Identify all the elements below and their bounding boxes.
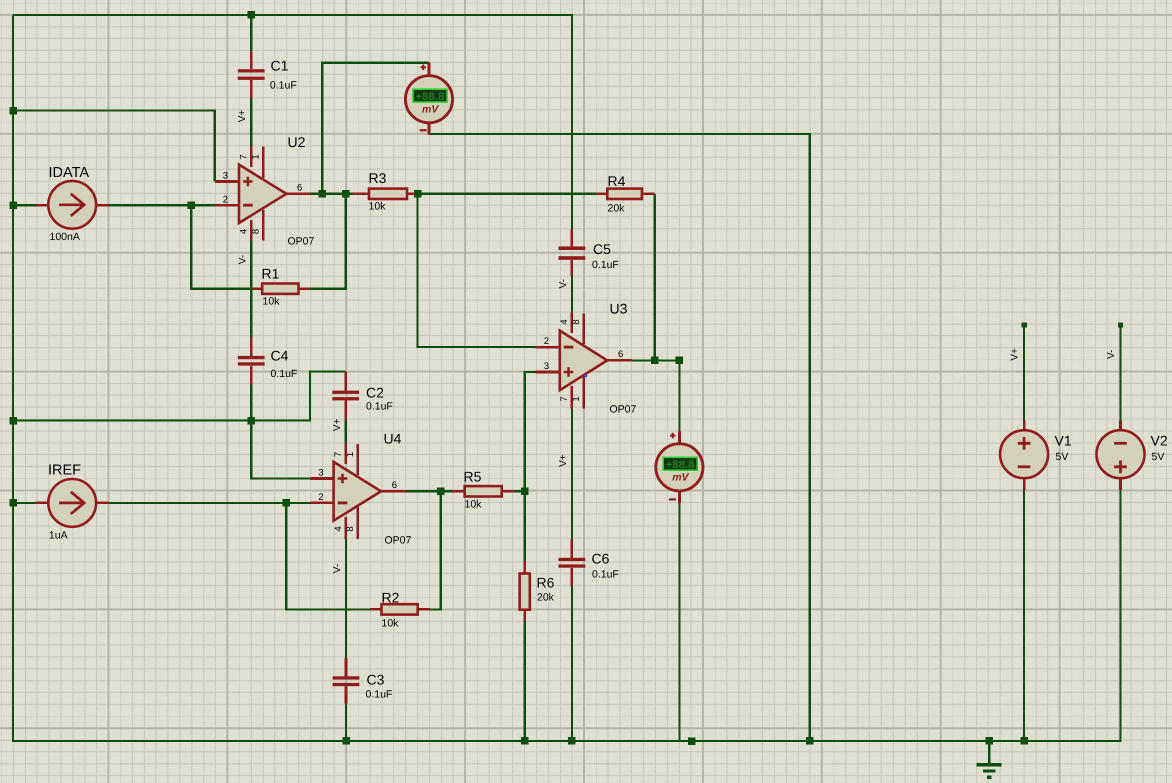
- wire V2 bottom riser: [1119, 490, 1121, 742]
- wire top rail from left rail to C5 column: [13, 15, 572, 229]
- wire R5 right to R6 column: [515, 490, 525, 492]
- wire U3 output lead to node: [632, 359, 656, 361]
- capacitor C3: [333, 658, 393, 704]
- wire U3 pin3 loop to R5/R6 column: [525, 372, 536, 561]
- svg-text:U4: U4: [384, 431, 402, 447]
- node ground rail V1: [1020, 737, 1028, 745]
- svg-text:10k: 10k: [382, 618, 400, 630]
- wire U4 output to R5: [406, 490, 452, 492]
- ground: [977, 741, 1002, 777]
- voltmeter M1: [405, 63, 452, 135]
- svg-text:+88.8: +88.8: [416, 91, 445, 103]
- svg-text:2: 2: [544, 336, 549, 347]
- svg-text:0.1uF: 0.1uF: [366, 689, 393, 701]
- resistor R6 (vertical): [520, 561, 555, 621]
- svg-text:3: 3: [318, 468, 323, 479]
- svg-text:100nA: 100nA: [50, 231, 80, 243]
- node left rail IREF: [9, 499, 17, 507]
- wire U4 pin2 node down to R2 row: [286, 503, 370, 610]
- svg-text:R1: R1: [262, 266, 280, 282]
- svg-text:4: 4: [239, 229, 250, 234]
- wire R4 right down to U3 output node: [654, 194, 656, 361]
- svg-text:C6: C6: [592, 551, 610, 567]
- svg-text:C3: C3: [367, 672, 385, 688]
- wire left rail: [12, 15, 14, 741]
- node ground rail ground pin: [986, 737, 994, 745]
- node IREF/U4 pin2 branch: [283, 499, 291, 507]
- svg-text:10k: 10k: [465, 499, 483, 511]
- current source IDATA: [36, 165, 109, 243]
- wire V1 bottom riser: [1023, 490, 1025, 741]
- svg-text:6: 6: [297, 183, 302, 194]
- svg-text:20k: 20k: [608, 203, 626, 215]
- svg-text:V1: V1: [1055, 433, 1072, 449]
- node ground rail wire-end: [688, 738, 696, 746]
- node left rail y=420: [9, 417, 17, 425]
- wire node row y=420 from left rail stepping up to C2: [13, 372, 346, 421]
- svg-text:R2: R2: [382, 590, 400, 606]
- capacitor C5: [559, 229, 619, 276]
- node V1 terminal square: [1021, 322, 1026, 327]
- resistor R5: [452, 469, 515, 511]
- svg-text:OP07: OP07: [288, 236, 315, 248]
- resistor R3: [353, 170, 415, 213]
- svg-text:IDATA: IDATA: [49, 165, 90, 181]
- svg-text:5V: 5V: [1152, 451, 1165, 463]
- pin1 marker: [584, 374, 587, 377]
- wire U2 pin4 to C4 top: [250, 240, 252, 337]
- svg-text:7: 7: [559, 396, 570, 401]
- resistor R4: [596, 173, 655, 215]
- svg-text:U2: U2: [288, 134, 306, 150]
- svg-text:1uA: 1uA: [49, 530, 68, 542]
- svg-text:V-: V-: [238, 255, 249, 264]
- node V2 terminal square: [1118, 322, 1123, 327]
- wire IREF left: [13, 502, 36, 504]
- svg-text:6: 6: [392, 480, 397, 491]
- capacitor C4: [238, 337, 298, 385]
- wire V1 top stub: [1023, 325, 1025, 421]
- node U2 output / meter branch: [319, 190, 327, 198]
- wire C1 bottom to U2 pin7: [250, 98, 252, 146]
- node U3 output / meter M2: [676, 357, 684, 365]
- wire left rail to IDATA: [13, 204, 36, 206]
- svg-text:0.1uF: 0.1uF: [592, 569, 619, 581]
- svg-text:1: 1: [251, 154, 262, 159]
- resistor R2: [370, 590, 430, 630]
- voltmeter M2: [656, 432, 703, 503]
- svg-text:U3: U3: [610, 301, 628, 317]
- node R3 right: [414, 190, 422, 198]
- op-amp U2: [215, 134, 315, 248]
- wire C1/V+ column above C1: [250, 15, 252, 51]
- wire R3 node down to U3 pin2: [418, 194, 536, 347]
- svg-text:0.1uF: 0.1uF: [592, 259, 619, 271]
- svg-text:3: 3: [544, 361, 549, 372]
- wire R1 right to R3 node column: [310, 194, 346, 289]
- node IDATA/R1 branch: [188, 202, 196, 210]
- node U4 output: [437, 488, 445, 496]
- svg-text:V-: V-: [1106, 350, 1117, 359]
- svg-text:V-: V-: [332, 564, 343, 573]
- svg-text:10k: 10k: [263, 296, 281, 308]
- wire C4 bottom to node row: [250, 384, 252, 420]
- node R3 left: [342, 190, 350, 198]
- wire R2 right up to U4 output node: [430, 491, 441, 609]
- svg-text:8: 8: [345, 526, 356, 531]
- node ground rail C6: [568, 737, 576, 745]
- svg-text:3: 3: [223, 171, 228, 182]
- wire C6 bottom to ground rail: [571, 586, 573, 741]
- node R5 right / U3 pin3: [521, 488, 529, 496]
- svg-text:1: 1: [345, 452, 356, 457]
- node left rail IDATA: [9, 202, 17, 210]
- node ground rail C3: [342, 737, 350, 745]
- svg-text:V+: V+: [558, 454, 569, 467]
- wire voltmeter M2 minus to ground rail: [678, 503, 680, 741]
- svg-text:C4: C4: [271, 348, 289, 364]
- wire U3 pin7 down to C6 top: [571, 409, 573, 540]
- svg-text:4: 4: [333, 526, 344, 531]
- capacitor C2: [332, 372, 393, 421]
- svg-text:OP07: OP07: [610, 404, 637, 416]
- wire V2 top stub: [1119, 325, 1121, 421]
- svg-text:1: 1: [571, 396, 582, 401]
- wire voltmeter M1 minus to right riser down to ground rail: [429, 134, 810, 741]
- svg-text:C5: C5: [593, 241, 611, 257]
- wire pin2 node down to R1 row: [191, 205, 252, 289]
- svg-text:2: 2: [223, 194, 228, 205]
- svg-text:R5: R5: [464, 469, 482, 485]
- svg-text:20k: 20k: [537, 592, 555, 604]
- node ground rail R6: [521, 737, 529, 745]
- wire R3 right to R4 left: [415, 193, 596, 195]
- node top rail / C1 column: [247, 11, 255, 19]
- svg-text:0.1uF: 0.1uF: [270, 80, 297, 92]
- capacitor C6: [559, 539, 619, 586]
- svg-text:8: 8: [251, 229, 262, 234]
- wire U4 pin4 down to C3 top: [345, 539, 347, 658]
- wire C5 bottom to U3 pin4: [571, 276, 573, 313]
- wire net row y=110 from left rail to U2 pin3: [13, 111, 215, 182]
- svg-text:mV: mV: [672, 472, 689, 484]
- wire output node up-left to voltmeter M1 plus: [322, 63, 429, 194]
- op-amp U4: [311, 431, 412, 547]
- svg-text:V-: V-: [558, 279, 569, 288]
- svg-text:OP07: OP07: [385, 535, 412, 547]
- node left rail y=110: [9, 107, 17, 115]
- node U3 output / R4: [651, 357, 659, 365]
- svg-text:V+: V+: [237, 110, 248, 123]
- wire U2 output to R3: [310, 193, 352, 195]
- svg-text:2: 2: [318, 492, 323, 503]
- svg-text:mV: mV: [422, 103, 439, 115]
- svg-text:+88.8: +88.8: [666, 459, 695, 471]
- wire R6 bottom to ground rail: [524, 621, 526, 741]
- svg-text:R6: R6: [537, 575, 555, 591]
- op-amp U3 (flipped): [536, 301, 637, 416]
- node ground rail right riser: [806, 737, 814, 745]
- svg-text:6: 6: [618, 349, 623, 360]
- svg-text:0.1uF: 0.1uF: [271, 368, 298, 380]
- wire IDATA to U2 pin2: [109, 204, 215, 206]
- wire bottom rail: [12, 740, 1121, 742]
- svg-text:7: 7: [333, 452, 344, 457]
- svg-text:IREF: IREF: [48, 463, 81, 479]
- current source IREF: [36, 463, 109, 542]
- svg-text:5V: 5V: [1056, 451, 1069, 463]
- wire C3 bottom to ground rail: [345, 704, 347, 741]
- svg-text:10k: 10k: [369, 201, 387, 213]
- svg-text:V2: V2: [1151, 433, 1168, 449]
- capacitor C1: [238, 51, 297, 98]
- voltage source V2: [1097, 420, 1168, 490]
- svg-text:C2: C2: [366, 385, 384, 401]
- wire IREF to U4 pin2: [109, 502, 311, 504]
- svg-text:C1: C1: [271, 58, 289, 74]
- wire C2 bottom to U4 pin7: [345, 421, 347, 444]
- svg-text:V+: V+: [332, 418, 343, 431]
- svg-text:R3: R3: [369, 170, 387, 186]
- svg-text:8: 8: [571, 319, 582, 324]
- svg-text:R4: R4: [608, 173, 626, 189]
- svg-text:0.1uF: 0.1uF: [366, 401, 393, 413]
- resistor R1: [253, 266, 310, 308]
- svg-text:7: 7: [239, 154, 250, 159]
- svg-text:V+: V+: [1010, 348, 1021, 361]
- svg-text:4: 4: [559, 319, 570, 324]
- wire U3 output node to voltmeter M2 plus: [655, 360, 680, 431]
- voltage source V1: [1000, 420, 1072, 490]
- node C4 bottom: [248, 417, 256, 425]
- wire node to U4 pin3: [251, 421, 311, 479]
